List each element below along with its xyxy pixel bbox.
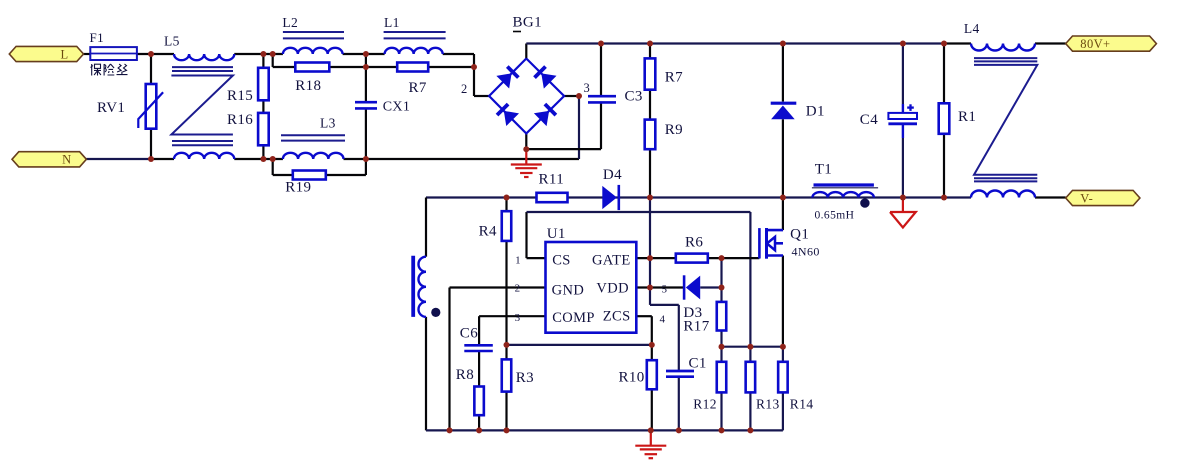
svg-text:R7: R7: [409, 80, 427, 96]
svg-text:R4: R4: [479, 224, 497, 240]
svg-text:0.65mH: 0.65mH: [815, 209, 855, 221]
svg-text:R6: R6: [685, 235, 703, 251]
svg-text:L2: L2: [282, 15, 298, 30]
svg-text:R18: R18: [295, 78, 321, 94]
svg-text:80V+: 80V+: [1080, 37, 1110, 51]
svg-text:L: L: [60, 48, 68, 62]
svg-text:R10: R10: [619, 369, 645, 385]
svg-text:L4: L4: [964, 21, 980, 36]
svg-text:L3: L3: [320, 116, 336, 131]
svg-text:R9: R9: [665, 122, 683, 138]
svg-text:VDD: VDD: [596, 281, 629, 297]
svg-text:GATE: GATE: [592, 253, 631, 269]
svg-text:CX1: CX1: [383, 100, 411, 115]
svg-text:L5: L5: [164, 34, 180, 49]
svg-text:C3: C3: [625, 89, 643, 105]
svg-text:R14: R14: [790, 397, 814, 412]
svg-text:RV1: RV1: [97, 100, 125, 116]
svg-text:C4: C4: [860, 112, 878, 128]
svg-text:COMP: COMP: [552, 310, 595, 326]
svg-text:C1: C1: [689, 356, 707, 372]
svg-text:N: N: [62, 153, 71, 167]
svg-text:L1: L1: [384, 15, 400, 30]
svg-text:C6: C6: [460, 326, 478, 342]
svg-text:V-: V-: [1080, 192, 1093, 206]
svg-text:T1: T1: [815, 162, 832, 178]
svg-text:F1: F1: [90, 30, 105, 45]
svg-text:R11: R11: [539, 172, 565, 188]
svg-text:1: 1: [515, 255, 521, 267]
svg-text:R16: R16: [227, 112, 253, 128]
svg-text:R19: R19: [285, 180, 311, 196]
svg-text:R3: R3: [516, 370, 534, 386]
svg-text:R15: R15: [227, 88, 253, 104]
svg-text:R8: R8: [456, 367, 474, 383]
svg-text:5: 5: [662, 284, 668, 296]
svg-text:R7: R7: [665, 70, 683, 86]
svg-text:R17: R17: [683, 319, 709, 335]
svg-text:3: 3: [515, 312, 521, 324]
svg-text:2: 2: [515, 283, 521, 295]
svg-text:4: 4: [660, 314, 666, 326]
svg-text:ZCS: ZCS: [603, 309, 631, 325]
svg-text:R13: R13: [756, 397, 780, 412]
svg-text:D1: D1: [806, 104, 825, 120]
svg-text:CS: CS: [552, 253, 571, 269]
svg-text:U1: U1: [547, 226, 566, 242]
svg-text:Q1: Q1: [790, 226, 809, 242]
svg-text:GND: GND: [552, 283, 585, 299]
svg-text:4N60: 4N60: [792, 245, 820, 259]
svg-text:R12: R12: [693, 397, 717, 412]
svg-text:3: 3: [584, 81, 591, 95]
svg-text:R1: R1: [958, 109, 976, 125]
svg-text:BG1: BG1: [513, 15, 543, 31]
svg-text:D4: D4: [603, 167, 622, 183]
svg-text:2: 2: [461, 82, 468, 96]
